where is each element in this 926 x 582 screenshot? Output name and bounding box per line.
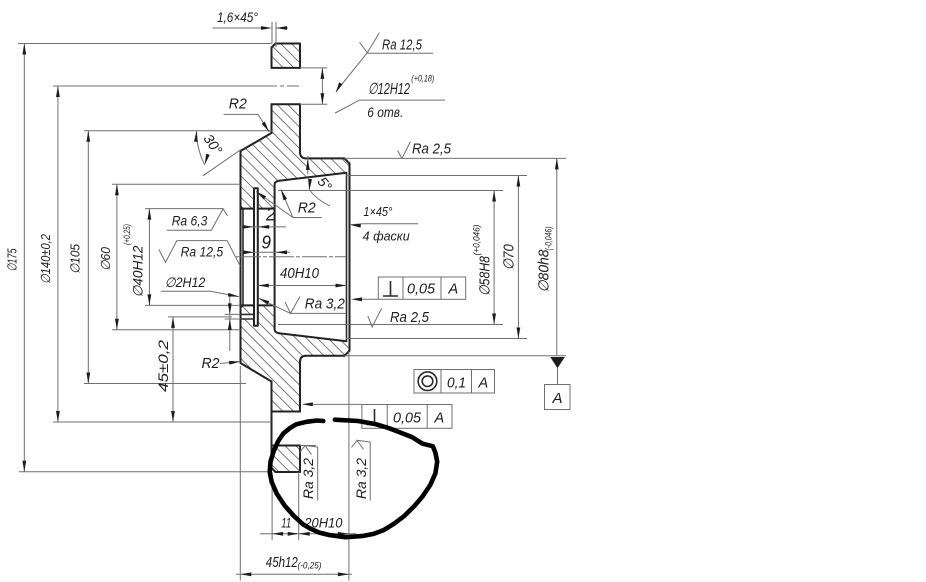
svg-text:45h12: 45h12 (266, 554, 298, 571)
part outline: bore 40H10 surface lines top (241, 208, 273, 210)
roughness tick+shelf: Ra12.5 left (159, 241, 240, 267)
svg-text:2: 2 (265, 204, 276, 225)
shelf+leader: 1x45 chamfers (351, 224, 418, 225)
svg-text:∅58H8: ∅58H8 (478, 256, 494, 296)
svg-text:A: A (478, 376, 489, 392)
svg-text:9: 9 (262, 232, 272, 253)
arrows: 5 deg (306, 159, 310, 170)
arrows: 45+-0.2 (171, 317, 175, 328)
svg-text:11: 11 (281, 514, 291, 530)
svg-text:Ra 2,5: Ra 2,5 (390, 310, 430, 326)
part outline: 30-deg slope bottom (241, 363, 272, 382)
ext line: phi40 top (145, 208, 223, 210)
leader: R2 bottom-left (220, 362, 239, 364)
part outline: bore entrance chamfer corners (241, 206, 244, 307)
svg-text:A: A (434, 411, 445, 427)
part outline: 30-deg slope top (241, 133, 272, 151)
part outline: flange top edge (276, 43, 301, 45)
dim line: 45+-0.2 (172, 317, 174, 422)
arrows: 45h12 (240, 572, 251, 576)
part outline: bore entrance chamfer edge line (242, 210, 244, 305)
svg-text:Ra 12,5: Ra 12,5 (181, 245, 224, 260)
svg-text:R2: R2 (298, 201, 316, 217)
part outline: 5-deg taper top (279, 173, 346, 181)
part outline: right end chamfers on phi80 (345, 158, 350, 355)
part outline: fillets bore-to-face (273, 206, 275, 308)
shelf+leader: phi12H12 callout (335, 100, 445, 113)
part outline: cylinder phi80 top surface (306, 157, 345, 159)
arrows: phi105 (86, 131, 90, 142)
part outline: 5-deg taper bottom (279, 333, 346, 341)
part outline: bore 40H10 surface lines bottom (241, 304, 273, 306)
svg-text:Ra 3,2: Ra 3,2 (354, 457, 369, 499)
5deg angular dim: lines and arc (308, 156, 310, 190)
perp symbol in mid frame (383, 281, 398, 296)
ext line: phi105 bottom (84, 383, 246, 385)
dim line: phi175 (23, 44, 25, 472)
hatch: flange section above top bolt hole (272, 44, 301, 68)
ext lines: hole 12H12 (300, 68, 327, 104)
ext line: phi175 bottom (19, 471, 272, 473)
arrows: 30 deg arc (194, 131, 198, 142)
arrow: Ra3.2 mid leader (258, 296, 270, 304)
svg-text:∅80h8: ∅80h8 (537, 250, 553, 293)
part outline: top bolt hole 12H12 edges (272, 68, 301, 104)
svg-text:40H10: 40H10 (280, 265, 320, 282)
roughness: Ra3.2 rotated no.1 tick+shelf (300, 446, 318, 501)
roughness Ra3.2 mid: tick, shelf, leader (259, 297, 347, 314)
svg-text:∅2H12: ∅2H12 (165, 275, 206, 290)
svg-text:∅60: ∅60 (98, 246, 113, 271)
leader: frame bottom to ext line (312, 403, 362, 405)
arrows: phi175 (22, 44, 26, 55)
svg-text:(+0,046): (+0,046) (472, 225, 483, 256)
part outline: relief groove 2H12 walls and caps (254, 188, 258, 325)
dim line: phi80h8 (556, 158, 558, 355)
arrows: R2 mid leaders (279, 189, 287, 201)
leader: Ra12.5 top to hole (337, 53, 368, 91)
shelf: Ra12.5 top (367, 52, 433, 54)
ext line: phi140 top (bolt circle) (53, 85, 265, 87)
svg-text:∅12H12: ∅12H12 (368, 81, 410, 98)
arrows: frame leaders (351, 297, 362, 301)
part outline: flange left edge segments (271, 48, 273, 469)
arrows: phi60 (115, 184, 119, 195)
part outline: phi2 lubrication hole edges (241, 314, 254, 319)
dim 9: groove to bore bottom (240, 251, 290, 253)
dim line: 11 and 20H10 row (260, 533, 356, 535)
arrow: R2 top leader (262, 122, 271, 133)
svg-text:0,1: 0,1 (447, 376, 466, 392)
arrows: 1.6x45 chamfer (261, 26, 272, 30)
datum A filled triangle (550, 357, 565, 368)
ext line: phi60 bottom (112, 329, 241, 331)
svg-text:0,05: 0,05 (407, 282, 436, 298)
ext line: phi70 top (346, 175, 527, 177)
arrows: phi58H8 (492, 191, 496, 202)
hatch: main hub section, lower half (241, 305, 350, 411)
centerline: top bolt hole axis (265, 85, 302, 87)
chamfer dim 1.6x45: ext lines up (272, 22, 276, 47)
arrow: phi80h8 top (555, 158, 559, 169)
arrows: 11 / 20H10 row (272, 532, 283, 536)
svg-text:∅70: ∅70 (502, 244, 518, 270)
ext line: phi58 bottom (278, 324, 503, 326)
30deg: slope extension (203, 150, 241, 176)
dim line: phi58H8 (493, 191, 495, 325)
ext line: phi80 top (345, 157, 567, 159)
arrow: 1x45 leader (350, 223, 361, 228)
part outline: flange top-left chamfer 1.6x45 (272, 44, 276, 48)
arrows: dim 9 (243, 250, 254, 254)
dim 2: groove width (240, 226, 286, 228)
ext lines: phi2 hole left (225, 314, 241, 319)
svg-text:(-0,25): (-0,25) (298, 561, 322, 572)
arrows: hole 12H12 (321, 68, 325, 79)
shelf+leaders: R2 mid (256, 190, 322, 218)
svg-text:Ra 2,5: Ra 2,5 (412, 142, 452, 158)
part outline: right bore chamfer edge circle (346, 173, 348, 342)
part outline: bore bottom flat face with fillets (275, 181, 279, 334)
frame: perpendicularity 0.05 A (mid) (378, 277, 465, 299)
svg-text:1×45°: 1×45° (363, 205, 392, 219)
part outline: flange bottom-left chamfer (272, 468, 276, 472)
svg-text:R2: R2 (202, 356, 220, 372)
svg-text:Ra 3,2: Ra 3,2 (301, 457, 316, 499)
svg-text:∅105: ∅105 (68, 243, 83, 274)
svg-text:A: A (552, 390, 563, 407)
svg-text:6 отв.: 6 отв. (367, 104, 403, 120)
arrows: phi2H12 converging (228, 303, 232, 314)
part outline: flange bottom edge (276, 471, 301, 473)
dim line: phi2H12 (229, 296, 231, 351)
dim line: phi70 (517, 176, 519, 339)
svg-text:A: A (448, 282, 459, 298)
roughness: Ra3.2 rotated no.2 tick+shelf (352, 440, 371, 500)
ext line: phi140 bottom / 45 bottom (53, 421, 272, 423)
chamfer dim 1.6x45: dim line and shelf (213, 27, 289, 29)
svg-text:0,05: 0,05 (393, 411, 422, 427)
hatch: main hub section, upper half (241, 104, 350, 208)
svg-text:4 фаски: 4 фаски (363, 229, 410, 243)
30deg: arc (197, 131, 205, 165)
ext line: phi40 bottom (145, 304, 241, 306)
arrows: phi70 (517, 176, 521, 187)
svg-text:(+0,25): (+0,25) (122, 224, 133, 245)
part outline: hub left face (240, 151, 242, 363)
part outline: right end face (349, 163, 351, 350)
svg-text:R2: R2 (229, 97, 247, 113)
datum A: stem and box (557, 368, 559, 385)
svg-text:Ra 3,2: Ra 3,2 (305, 297, 345, 313)
roughness tick: Ra12.5 top (360, 33, 380, 53)
svg-text:(-0,046): (-0,046) (544, 227, 555, 251)
frame: coaxiality 0.1 A (414, 370, 495, 394)
arrows: phi40H12 (148, 209, 152, 220)
arrows: dim 40H10 (258, 284, 269, 288)
ext line: phi58 top (278, 190, 503, 192)
arrow: phi2H12 leader (228, 293, 239, 299)
ext line: phi70 bottom (346, 338, 527, 340)
centerline: part axis (236, 256, 346, 258)
shelf+leader: phi2H12 (161, 291, 239, 296)
leader: frame mid to right face (360, 298, 378, 300)
svg-text:Ra 6,3: Ra 6,3 (172, 214, 208, 229)
frame: perpendicularity 0.05 A (bottom) (362, 405, 452, 429)
svg-text:∅40H12: ∅40H12 (131, 245, 146, 297)
dim line: 45h12 (236, 573, 352, 575)
arrows: phi140 (56, 86, 60, 97)
shelf+leader: R2 top (224, 114, 270, 131)
roughness tick: Ra2.5 top (398, 142, 411, 159)
ext lines: bottom 45h12 and 20H10 (240, 352, 349, 581)
roughness tick: Ra2.5 bottom (368, 309, 382, 328)
perp symbol in bottom frame (367, 409, 383, 425)
svg-text:1,6×45°: 1,6×45° (217, 9, 258, 25)
ext line: flange top / phi175 top (18, 43, 272, 45)
dim line: phi60 (116, 184, 118, 329)
svg-text:Ra 12,5: Ra 12,5 (382, 38, 423, 54)
svg-text:∅175: ∅175 (5, 248, 20, 272)
part outline: flange right edge segments (300, 44, 306, 473)
ext line: phi60 top (112, 183, 241, 185)
dim line: phi140 (57, 86, 59, 422)
svg-text:45±0,2: 45±0,2 (156, 339, 171, 392)
shelf: Ra6.3 (167, 209, 228, 231)
hatch: flange section below bottom hole (272, 446, 301, 473)
dim line: hole 12H12 vertical (321, 68, 323, 104)
ext line: phi80 bottom (345, 355, 567, 357)
svg-text:∅140±0,2: ∅140±0,2 (38, 233, 53, 284)
lubrication hole phi2 white cut through wall (240, 315, 254, 319)
arrows: dim 2 (243, 225, 254, 229)
coaxiality symbol circles (418, 372, 437, 391)
dim line: phi40H12 (148, 209, 150, 306)
dim line: phi105 (87, 131, 89, 384)
part outline: bottom hole 20H10 edges (272, 412, 301, 446)
svg-text:(+0,18): (+0,18) (411, 74, 434, 84)
arrow: Ra12.5 top leader (334, 82, 343, 93)
ext line: hole axis for 45+-0.2 (168, 316, 232, 318)
hand-drawn marker blob (two strokes with pen-lift gap at top) (270, 420, 438, 538)
dim 40H10: bore depth (258, 285, 347, 287)
ext line: phi105 top / 30deg reference (84, 130, 272, 132)
part outline: cylinder phi80 bottom surface (306, 355, 345, 357)
